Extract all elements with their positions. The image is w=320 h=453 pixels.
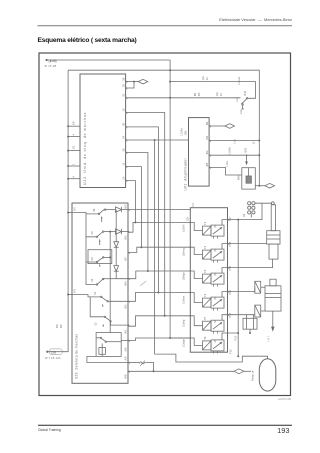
svg-text:24: 24 bbox=[122, 136, 126, 139]
wire vertical feed x170 bbox=[170, 60, 190, 338]
svg-text:LGr/gn: LGr/gn bbox=[182, 339, 186, 347]
svg-text:Eletricidade Veicular — Merc: Eletricidade Veicular — Mercedes-Benz bbox=[219, 17, 292, 22]
wire pin28 bbox=[126, 127, 159, 293]
svg-text:8/5: 8/5 bbox=[205, 162, 209, 166]
valves bbox=[190, 220, 239, 354]
svg-text:S1: S1 bbox=[93, 291, 97, 295]
wire reservoir feed bbox=[155, 354, 268, 362]
schematic frame bbox=[39, 53, 291, 396]
svg-text:LGr: LGr bbox=[239, 110, 243, 114]
valve Y1 bbox=[190, 220, 227, 237]
svg-text:S4: S4 bbox=[90, 257, 94, 261]
svg-text:BR: BR bbox=[193, 93, 197, 97]
svg-text:B/8: B/8 bbox=[124, 374, 128, 378]
S29 internals bbox=[72, 207, 128, 363]
svg-text:36: 36 bbox=[122, 77, 126, 80]
wire top feed right bbox=[170, 82, 255, 99]
svg-text:LGr/ws: LGr/ws bbox=[182, 295, 186, 304]
diode column down1 bbox=[115, 210, 117, 242]
valve Y5 bbox=[190, 315, 227, 332]
wire U63 8/2 bbox=[209, 154, 259, 156]
svg-text:11: 11 bbox=[122, 162, 126, 165]
svg-text:LGr: LGr bbox=[235, 97, 239, 101]
svg-text:(45B): (45B) bbox=[49, 59, 57, 63]
svg-text:BR: BR bbox=[55, 324, 59, 328]
svg-text:A/6: A/6 bbox=[124, 347, 128, 351]
pneumatic connector circles bbox=[248, 202, 255, 218]
block U63 bbox=[189, 118, 210, 187]
node pin24 bbox=[154, 139, 156, 141]
svg-text:15B: 15B bbox=[51, 350, 57, 354]
footer rule bbox=[38, 424, 292, 426]
svg-text:Y6: Y6 bbox=[203, 336, 207, 340]
connector diamond A bbox=[138, 79, 148, 84]
svg-text:Y5: Y5 bbox=[203, 316, 207, 320]
switch S4 box bbox=[88, 250, 112, 264]
connector diamond D bbox=[234, 369, 244, 374]
node pin32-x170 bbox=[169, 97, 171, 99]
S29 right pin ticks bbox=[128, 208, 130, 372]
switch B42 bbox=[239, 90, 256, 144]
node fuse 15B bbox=[46, 351, 48, 353]
svg-text:B41: B41 bbox=[244, 147, 248, 152]
svg-text:U22 Unid. de bloq. de marchas: U22 Unid. de bloq. de marchas bbox=[83, 112, 87, 185]
svg-text:Recip. ar: Recip. ar bbox=[251, 370, 255, 381]
svg-text:Y2: Y2 bbox=[203, 245, 207, 249]
air P16 bbox=[228, 259, 273, 268]
air P20 + throttle box1 bbox=[228, 287, 255, 291]
svg-text:1/9: 1/9 bbox=[72, 121, 76, 125]
block U22 bbox=[80, 74, 126, 188]
svg-text:Y3: Y3 bbox=[203, 293, 207, 297]
svg-text:A/1: A/1 bbox=[73, 289, 77, 293]
wire V4 feed bbox=[128, 293, 190, 302]
svg-text:8/1: 8/1 bbox=[205, 121, 209, 125]
wire U63 8/3 bbox=[209, 140, 259, 142]
svg-text:S8: S8 bbox=[92, 208, 96, 212]
svg-text:B/2: B/2 bbox=[124, 304, 128, 308]
diode D8 bbox=[116, 207, 122, 212]
svg-text:B/1: B/1 bbox=[124, 329, 128, 333]
svg-text:19/1: 19/1 bbox=[184, 130, 188, 136]
left bus bbox=[47, 70, 68, 352]
valve port stubs bbox=[214, 320, 218, 334]
wire A9 cont bbox=[145, 362, 154, 371]
svg-text:8/2: 8/2 bbox=[205, 150, 209, 154]
svg-text:A/9: A/9 bbox=[124, 356, 128, 360]
S29 pin A/1 bbox=[68, 294, 72, 296]
svg-text:U63 Amplificador: U63 Amplificador bbox=[184, 157, 188, 190]
diode D5 bbox=[116, 229, 122, 234]
valve Y4 bbox=[190, 292, 227, 309]
wire V2 feed bbox=[128, 247, 190, 252]
svg-text:P10: P10 bbox=[229, 349, 233, 354]
terminal ticks 45B bbox=[51, 60, 56, 62]
U63 right pin labels bbox=[205, 121, 209, 167]
valve port stubs bbox=[214, 297, 218, 311]
valve port stubs bbox=[214, 249, 218, 263]
wire V5 feed bbox=[128, 316, 190, 326]
wire pin24 bbox=[126, 139, 189, 141]
svg-text:GD: GD bbox=[186, 217, 190, 221]
svg-text:P27: P27 bbox=[228, 216, 232, 221]
svg-text:LGr/rg: LGr/rg bbox=[182, 319, 186, 327]
sensor B40 bbox=[237, 168, 265, 189]
svg-text:193: 193 bbox=[277, 426, 289, 435]
wire v-long bbox=[154, 140, 156, 354]
svg-text:B42: B42 bbox=[243, 90, 247, 95]
S29 pin A/7 bbox=[68, 212, 72, 214]
svg-text:B40: B40 bbox=[237, 175, 241, 180]
valve port stubs bbox=[214, 225, 218, 239]
svg-text:U1: U1 bbox=[191, 203, 195, 207]
wire pin10 bbox=[126, 113, 165, 316]
diode column down2 bbox=[114, 266, 119, 272]
svg-text:QG: QG bbox=[215, 92, 219, 96]
svg-text:Y4: Y4 bbox=[203, 269, 207, 273]
S29 right pin labels bbox=[124, 204, 128, 378]
air P18 bbox=[228, 243, 267, 245]
valve feed entry dots bbox=[190, 222, 192, 224]
wire V3 feed bbox=[128, 271, 190, 279]
header rule bbox=[38, 25, 293, 27]
valve output pin labels bbox=[228, 216, 238, 354]
svg-text:S29 Seletora de marchas: S29 Seletora de marchas bbox=[75, 334, 79, 379]
vertical rail x110 bbox=[109, 232, 111, 333]
splice symbol bbox=[139, 362, 145, 364]
svg-text:LGr+H: LGr+H bbox=[237, 77, 241, 85]
lamp box bbox=[99, 348, 106, 355]
annotation slash bbox=[140, 281, 146, 286]
svg-text:20: 20 bbox=[122, 176, 126, 179]
pin labels U22 right bbox=[122, 77, 126, 179]
wire A9 bbox=[128, 361, 139, 363]
svg-text:B/7: B/7 bbox=[124, 256, 128, 260]
svg-text:8/3: 8/3 bbox=[205, 135, 209, 139]
wire U63 8/5 bbox=[209, 167, 242, 175]
air P21 + throttle box2 bbox=[228, 314, 255, 316]
svg-text:Esquema elétrico ( sexta march: Esquema elétrico ( sexta marcha) bbox=[38, 37, 137, 44]
svg-text:A6: A6 bbox=[242, 213, 246, 217]
svg-text:P15: P15 bbox=[233, 335, 237, 340]
valve output ticks bbox=[228, 218, 230, 316]
svg-text:B/3: B/3 bbox=[124, 204, 128, 208]
air P27 bbox=[228, 203, 263, 219]
valve port stubs bbox=[214, 340, 218, 354]
svg-text:LGr/Vi: LGr/Vi bbox=[180, 128, 184, 136]
svg-text:S3: S3 bbox=[90, 278, 94, 282]
svg-text:I N 7: I N 7 bbox=[267, 335, 271, 341]
wire pin36 bbox=[126, 81, 139, 83]
svg-text:B/5: B/5 bbox=[124, 235, 128, 239]
valve Y3 bbox=[190, 268, 227, 285]
svg-text:LGr/Vi: LGr/Vi bbox=[228, 147, 232, 155]
rail S8->S5 bbox=[86, 214, 97, 237]
cylinder 1 bbox=[267, 205, 280, 259]
pin ticks U22 right bbox=[126, 80, 128, 182]
svg-text:4/5: 4/5 bbox=[197, 92, 201, 96]
svg-text:wb257e08: wb257e08 bbox=[278, 397, 291, 401]
air P15 + box3 bbox=[249, 329, 251, 333]
wire pin20 bbox=[126, 181, 136, 223]
reservoir bbox=[259, 359, 276, 391]
sensor B41 bbox=[244, 147, 248, 165]
svg-text:26: 26 bbox=[122, 148, 126, 151]
svg-text:1/1: 1/1 bbox=[72, 145, 76, 149]
svg-text:14: 14 bbox=[219, 93, 223, 96]
block S29 bbox=[72, 203, 128, 383]
wire top feed to left bus bbox=[68, 70, 259, 186]
svg-text:13: 13 bbox=[205, 77, 209, 80]
svg-text:4: 4 bbox=[72, 176, 76, 178]
wire 45B top bbox=[47, 59, 171, 61]
svg-text:W 7 F6 12A: W 7 F6 12A bbox=[45, 356, 61, 360]
wire pin26 bbox=[126, 153, 148, 272]
wire connector to cyl1 bbox=[255, 202, 272, 204]
switch S6 bbox=[96, 337, 100, 339]
svg-text:1: 1 bbox=[72, 163, 76, 165]
valve left wire labels bbox=[182, 217, 190, 347]
cylinder 2 bbox=[265, 279, 281, 330]
node +(45B) bbox=[46, 59, 48, 61]
svg-text:Y1: Y1 bbox=[203, 221, 207, 225]
valve Y2 bbox=[190, 244, 227, 261]
svg-text:10: 10 bbox=[122, 108, 126, 111]
wire B8 long bbox=[128, 370, 234, 372]
node j1 bbox=[169, 69, 171, 71]
U22 left pins bbox=[67, 121, 80, 180]
svg-text:32: 32 bbox=[122, 93, 126, 96]
connector diamond C bbox=[265, 183, 275, 188]
svg-text:S2: S2 bbox=[94, 322, 98, 326]
wire pin11 bbox=[126, 167, 142, 248]
inner box bottom bbox=[96, 333, 121, 357]
svg-text:28: 28 bbox=[122, 122, 126, 125]
wire U63 8/1 bbox=[209, 125, 225, 127]
svg-text:6/2: 6/2 bbox=[59, 324, 63, 328]
rail S5->S4 bbox=[86, 237, 97, 262]
wire pin30 bbox=[126, 82, 134, 88]
svg-text:4: 4 bbox=[72, 134, 76, 136]
svg-text:B/4: B/4 bbox=[124, 281, 128, 285]
air supply vertical bbox=[237, 220, 239, 357]
wire S29 B3 to valves bbox=[128, 209, 190, 211]
svg-text:12: 12 bbox=[252, 141, 256, 144]
wire V1 feed bbox=[128, 222, 190, 232]
svg-text:LBr+rg: LBr+rg bbox=[182, 248, 186, 256]
node j2 bbox=[169, 81, 171, 83]
svg-text:W 15 2B: W 15 2B bbox=[45, 64, 57, 68]
connector diamond B bbox=[225, 124, 235, 129]
wire pin32 bbox=[126, 97, 241, 99]
svg-text:LGr+: LGr+ bbox=[225, 160, 229, 166]
valve Y6 bbox=[190, 332, 239, 351]
svg-text:QG: QG bbox=[201, 76, 205, 80]
svg-text:LGr/Vi: LGr/Vi bbox=[182, 224, 186, 232]
svg-text:LBr/gn: LBr/gn bbox=[182, 272, 186, 280]
valve port stubs bbox=[214, 273, 218, 287]
svg-text:30: 30 bbox=[122, 84, 126, 87]
svg-text:A/7: A/7 bbox=[73, 207, 77, 211]
valve group box bbox=[190, 208, 227, 353]
svg-text:LGr: LGr bbox=[233, 139, 237, 143]
node pin36 bbox=[133, 81, 135, 83]
svg-text:Global Training: Global Training bbox=[38, 428, 61, 432]
svg-text:S5: S5 bbox=[90, 231, 94, 235]
wire V6 feed bbox=[128, 338, 190, 341]
